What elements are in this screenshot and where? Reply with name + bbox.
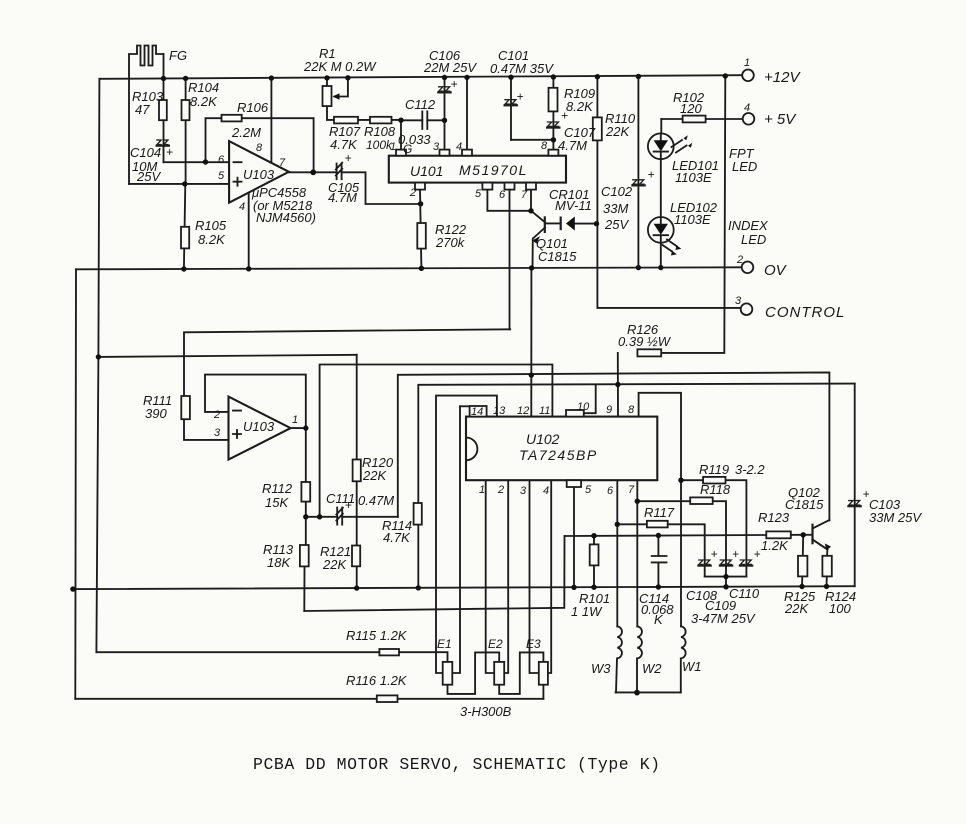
junction C114 top at R123 line <box>656 533 661 538</box>
junction Q101 emitter at 0V rail <box>529 265 534 270</box>
wire R109 / C107 / U101 pin8 column <box>552 78 554 156</box>
junction U103a pin4 at 0V rail <box>246 266 251 271</box>
resistor R115 <box>379 649 399 655</box>
junction W2 at star point <box>634 690 640 696</box>
svg-text:CONTROL: CONTROL <box>765 304 845 321</box>
svg-text:R123: R123 <box>758 510 790 525</box>
terminal 4 (+5V) <box>743 113 755 125</box>
junction C114 at bottom rail <box>656 584 661 589</box>
wire R119 line <box>681 480 746 576</box>
wire U103a output to C105 <box>289 171 337 173</box>
wire R120 line from left +12V drop <box>98 355 356 357</box>
LED LED101 <box>648 133 692 159</box>
junction R123 / R125 / Q102 base <box>801 532 806 537</box>
wire U102 pin4 drop to E3 right <box>548 480 551 673</box>
wire R113 column below C111 node <box>304 517 306 611</box>
svg-text:7: 7 <box>628 484 635 496</box>
wire pin11 line (C111 node up and over to U102 pin 11) <box>320 365 553 517</box>
svg-text:+: + <box>732 547 739 561</box>
svg-text:+: + <box>754 547 761 561</box>
junction R121 at bottom rail <box>354 585 359 590</box>
wire R105 column (to 0V rail) <box>184 184 185 269</box>
wire C114 column <box>657 536 659 588</box>
wire C112 right <box>427 119 444 121</box>
svg-text:33M 25V: 33M 25V <box>869 510 922 525</box>
svg-text:R108: R108 <box>364 124 396 139</box>
wire Q102 base <box>803 534 812 536</box>
wire U103b output down through R112 to C111 node <box>305 428 307 517</box>
svg-text:W3: W3 <box>591 661 611 676</box>
capacitor C103 <box>847 487 869 506</box>
wire R1 top <box>326 80 328 86</box>
svg-text:2: 2 <box>213 409 220 421</box>
svg-text:2: 2 <box>409 187 416 199</box>
wire U103a pin4 to 0V rail <box>248 193 250 269</box>
svg-text:E2: E2 <box>488 637 503 651</box>
pin stub U101 pin3 <box>440 150 450 156</box>
svg-text:+12V: +12V <box>764 69 801 86</box>
svg-text:8: 8 <box>541 140 548 152</box>
wire U102 pin3 drop to E3 left <box>530 480 539 673</box>
diode CR101 <box>561 217 575 231</box>
wire U102 pin5 stub drop to bottom rail <box>573 487 575 589</box>
IC U102 <box>466 417 657 481</box>
wire node pin6 line (C104 bottom to op-amp U103 pin6) <box>164 161 230 163</box>
svg-text:E1: E1 <box>437 637 452 651</box>
resistor R109 <box>549 88 558 112</box>
resistor R120 <box>353 460 361 482</box>
svg-text:25V: 25V <box>136 169 161 184</box>
FG sensor comb symbol <box>129 46 164 184</box>
resistor R107 <box>334 117 358 124</box>
wire U101 pin4 to rail <box>466 78 468 149</box>
svg-text:3-H300B: 3-H300B <box>460 704 512 719</box>
resistor R112 <box>301 482 310 502</box>
capacitor C106 <box>437 77 457 92</box>
resistor R122 <box>417 223 426 249</box>
svg-text:0.47M: 0.47M <box>358 493 394 508</box>
resistor R114 <box>414 503 422 525</box>
svg-text:18K: 18K <box>267 555 291 570</box>
wire R1 bottom / R107 R108 line to U101 pin1 node <box>327 106 401 120</box>
capacitor C104 <box>156 140 174 159</box>
wire Q101 collector to CR101 <box>545 222 561 224</box>
pin stub U101 pin4 <box>462 150 472 156</box>
junction U101 pin4 at +12V rail <box>464 75 469 80</box>
svg-text:U101: U101 <box>410 163 443 179</box>
svg-text:120: 120 <box>680 101 702 116</box>
svg-text:+: + <box>345 151 352 165</box>
svg-text:NJM4560): NJM4560) <box>256 210 316 225</box>
transistor Q102 <box>813 524 832 551</box>
svg-text:PCBA DD MOTOR SERVO, SCHEMATIC: PCBA DD MOTOR SERVO, SCHEMATIC (Type K) <box>253 755 661 774</box>
wire U102 pin12 vertical from 0V rail <box>530 268 532 416</box>
svg-text:1: 1 <box>479 484 485 496</box>
svg-text:U103: U103 <box>243 167 275 182</box>
winding W3 coil <box>616 626 622 692</box>
wire U101 pin6 line to R111 to U103b pin3 <box>184 329 510 440</box>
svg-text:14: 14 <box>471 406 483 418</box>
svg-text:6: 6 <box>607 485 614 497</box>
junction R109 at +12V rail <box>551 74 556 79</box>
junction U102 pin5 drop at bottom rail <box>571 585 576 590</box>
svg-text:10: 10 <box>577 401 590 413</box>
resistor R126 <box>637 349 661 356</box>
junction R122 at 0V rail <box>419 266 424 271</box>
svg-text:G: G <box>403 142 412 156</box>
wire U103b output <box>291 427 306 429</box>
wire U101 pin7 <box>530 190 532 211</box>
svg-text:7: 7 <box>521 189 528 201</box>
svg-text:W2: W2 <box>642 661 662 676</box>
svg-text:5: 5 <box>218 170 225 182</box>
svg-text:1: 1 <box>390 141 396 153</box>
svg-text:8.2K: 8.2K <box>198 232 226 247</box>
wire R118 line <box>637 501 726 587</box>
svg-text:2: 2 <box>497 484 504 496</box>
svg-text:1103E: 1103E <box>674 212 711 227</box>
wire C106 column / U101 pin3 <box>444 78 446 156</box>
svg-text:E3: E3 <box>526 637 541 651</box>
wire U102 pin13 loop to E1 left <box>436 396 497 673</box>
wire U102 pin6 / W3 column <box>616 480 618 626</box>
wire 0V rail <box>76 267 742 269</box>
wire +12V top rail <box>99 75 741 79</box>
wire FG right / R103 / C104 column <box>163 54 165 162</box>
wire C108 C109 C110 bottom bracket <box>705 576 747 578</box>
junction R117 at W3 column <box>615 522 620 527</box>
svg-text:390: 390 <box>145 406 167 421</box>
capacitor C101 <box>504 90 524 106</box>
wire E3 bottom to R116 line <box>542 685 544 699</box>
svg-text:4: 4 <box>744 102 750 114</box>
wire Q102 collector riser handled by bus1 <box>813 520 830 529</box>
junction R106/pin6 line <box>203 159 208 164</box>
pin stub U101 pin5 <box>482 183 492 190</box>
svg-text:C104: C104 <box>130 145 161 160</box>
wire U101 pin5 to Q101 base node <box>487 190 531 211</box>
wire bottom rail <box>73 586 855 589</box>
svg-text:15K: 15K <box>265 495 289 510</box>
svg-text:3-2.2: 3-2.2 <box>735 462 765 477</box>
junction R104 at +12V rail <box>183 76 188 81</box>
junction C102 at 0V rail <box>636 265 641 270</box>
resistor R106 <box>222 115 242 122</box>
junction U103a output / R106 / C105 <box>310 169 316 175</box>
svg-text:8: 8 <box>628 404 635 416</box>
junction cap bracket at bottom rail <box>723 584 728 589</box>
wire C102 column <box>637 76 639 268</box>
junction U101 pin5/pin7 / Q101 base <box>528 208 533 213</box>
svg-text:TA7245BP: TA7245BP <box>519 447 598 463</box>
wire pin14 loop drop to E1 right <box>452 406 460 673</box>
svg-text:100k: 100k <box>366 138 393 152</box>
wire U103a pin8 to +12V rail <box>270 78 272 163</box>
resistor R104 <box>182 100 190 120</box>
hall element E3 <box>539 662 548 685</box>
terminal 3 (CONTROL) <box>741 303 753 315</box>
svg-text:13: 13 <box>493 405 506 417</box>
capacitor C109 <box>719 547 739 566</box>
svg-text:+: + <box>166 145 173 159</box>
svg-text:R104: R104 <box>188 80 219 95</box>
wire U102 pin2 drop to E2 right <box>504 480 508 673</box>
svg-text:+: + <box>648 168 655 182</box>
svg-text:3: 3 <box>520 485 527 497</box>
svg-text:11: 11 <box>539 405 550 417</box>
svg-text:C112: C112 <box>405 97 436 112</box>
svg-text:5: 5 <box>475 188 482 200</box>
wire U101 pin2 to R122 to 0V rail <box>420 190 421 269</box>
svg-text:R116 1.2K: R116 1.2K <box>346 673 408 688</box>
resistor R119 <box>703 477 725 484</box>
svg-text:R112: R112 <box>262 481 293 496</box>
junction U102 pin9 at bus2 <box>615 382 620 387</box>
svg-text:1 1W: 1 1W <box>571 604 603 619</box>
svg-text:W1: W1 <box>682 659 702 674</box>
wire R125 column <box>802 535 803 587</box>
svg-text:25V: 25V <box>604 217 629 232</box>
svg-text:12: 12 <box>517 405 529 417</box>
wire U102 pin7 / W2 column <box>636 480 638 626</box>
junction FG/R103 at +12V rail <box>161 76 166 81</box>
svg-text:C102: C102 <box>601 184 633 199</box>
pin stub U101 pin7 <box>526 183 536 190</box>
svg-text:+: + <box>451 77 458 91</box>
resistor R105 <box>181 227 189 249</box>
svg-text:FG: FG <box>169 48 187 63</box>
svg-text:C1815: C1815 <box>785 497 824 512</box>
wire R102 line to +5V terminal <box>661 118 742 120</box>
wire C105 to U101 pin2 node <box>342 172 421 204</box>
svg-text:3-47M 25V: 3-47M 25V <box>691 611 756 626</box>
wire R1 wiper to rail <box>335 78 348 96</box>
junction C102 at +12V rail <box>636 74 641 79</box>
svg-text:8: 8 <box>256 142 263 154</box>
svg-text:7: 7 <box>279 157 286 169</box>
svg-text:1: 1 <box>292 414 298 426</box>
svg-text:R119: R119 <box>699 462 729 477</box>
pin stub U102 pin10 box <box>566 410 584 417</box>
wire U101 pin1 <box>400 120 402 149</box>
wire Q102 emitter to R124 <box>813 540 828 587</box>
wire R116 line <box>75 698 543 700</box>
terminal 2 (0V) <box>742 262 754 274</box>
wire bus1 (U102 pin12 bus) <box>398 372 830 520</box>
wire W1 coil and bottom <box>681 626 686 692</box>
wire R120 / R121 column <box>356 355 358 589</box>
junction U103b output <box>303 425 308 430</box>
junction pin11 riser / C111 line <box>317 514 322 519</box>
svg-text:4.7K: 4.7K <box>383 530 411 545</box>
wire U101 pin6 down to U103b line <box>509 190 511 330</box>
svg-text:22K: 22K <box>784 601 809 616</box>
svg-text:9: 9 <box>606 404 612 416</box>
svg-text:K: K <box>654 612 664 627</box>
terminal 1 (+12V) <box>742 70 754 82</box>
wire winding star point <box>616 691 681 693</box>
junction C106 at +12V rail <box>442 75 447 80</box>
svg-text:22K: 22K <box>362 468 387 483</box>
junction R114 at bottom rail <box>416 585 421 590</box>
capacitor C105 <box>336 151 352 179</box>
junction C101 at +12V rail <box>508 75 513 80</box>
pin stub U101 pin1 <box>396 150 406 156</box>
resistor R117 <box>647 521 668 528</box>
resistor R113 <box>300 545 309 566</box>
capacitor C102 <box>631 168 654 186</box>
resistor R116 <box>377 695 398 702</box>
svg-text:M51970L: M51970L <box>459 162 528 178</box>
svg-text:LED: LED <box>741 232 766 247</box>
wire R110 column down to CONTROL terminal <box>597 76 740 308</box>
svg-text:1.2K: 1.2K <box>761 538 789 553</box>
wire U102 pin8 jog to W1 column <box>639 393 681 627</box>
junction CR101 anode / R110 column <box>594 221 599 226</box>
wire bus2 (R114 to C103 bus) <box>418 384 854 588</box>
svg-text:3: 3 <box>214 427 221 439</box>
svg-text:OV: OV <box>764 262 788 279</box>
svg-text:100: 100 <box>829 601 851 616</box>
svg-text:6: 6 <box>218 154 225 166</box>
pin stub U102 pin5 box <box>567 480 581 487</box>
wire R113 line to R123 line riser <box>304 536 564 611</box>
pin stub U101 pin8 <box>548 150 558 156</box>
svg-text:270k: 270k <box>435 235 466 250</box>
svg-text:INDEX: INDEX <box>728 218 769 233</box>
svg-text:1103E: 1103E <box>675 170 712 185</box>
op-amp U103 (a) <box>229 141 289 203</box>
resistor R121 <box>352 546 360 567</box>
svg-text:22M 25V: 22M 25V <box>423 60 477 75</box>
svg-text:U102: U102 <box>526 431 560 447</box>
resistor R108 <box>370 117 392 124</box>
pin stub U101 pin6 <box>505 183 515 190</box>
svg-text:0.47M 35V: 0.47M 35V <box>490 61 554 76</box>
wire +12V drop right to R126 line <box>637 76 725 353</box>
svg-text:47: 47 <box>135 102 150 117</box>
junction U103a pin8 at +12V rail <box>269 75 274 80</box>
svg-text:2: 2 <box>736 254 743 266</box>
svg-text:2.2M: 2.2M <box>231 125 261 140</box>
svg-text:U103: U103 <box>243 419 275 434</box>
capacitor C107 <box>546 109 568 128</box>
junction R108 / C112 / U101 pin1 <box>398 118 403 123</box>
svg-text:4.7M: 4.7M <box>328 190 357 205</box>
junction U102 pin12 at bus1 <box>529 372 534 377</box>
svg-text:1: 1 <box>744 57 750 69</box>
wire R104 column <box>185 78 187 184</box>
capacitor C108 <box>697 547 717 566</box>
svg-text:4.7M: 4.7M <box>558 138 587 153</box>
wire C111 line left <box>306 516 337 518</box>
wire R106 feedback loop <box>206 118 314 172</box>
hall element E1 <box>443 662 453 685</box>
junction left drop / R120 line <box>96 354 101 359</box>
junction R125 at bottom rail <box>799 584 804 589</box>
wire C101 column <box>510 78 512 140</box>
junction R101 at bottom rail <box>591 585 596 590</box>
resistor R118 <box>690 497 713 504</box>
junction R1 top at +12V rail <box>324 75 329 80</box>
transistor Q101 <box>531 211 545 268</box>
resistor R125 <box>798 556 807 577</box>
svg-text:LED: LED <box>732 159 757 174</box>
wire C101 bottom to pin8 column <box>511 139 553 141</box>
svg-text:4: 4 <box>543 485 549 497</box>
svg-text:8.2K: 8.2K <box>566 99 594 114</box>
resistor R103 <box>159 100 167 120</box>
resistor R123 <box>766 531 791 538</box>
svg-text:5: 5 <box>585 484 592 496</box>
svg-text:6: 6 <box>499 189 506 201</box>
resistor R110 <box>593 117 602 140</box>
svg-text:C111: C111 <box>326 491 355 506</box>
svg-text:22K M 0.2W: 22K M 0.2W <box>303 59 377 74</box>
wire LED column <box>660 119 663 268</box>
wire U102 pin10 jog from bus2 <box>584 385 596 414</box>
junction R105 at 0V rail <box>181 266 186 271</box>
winding W2 coil <box>637 626 642 692</box>
wire R123 line <box>565 535 804 536</box>
junction C105 line / U101 pin2 / R122 <box>418 201 423 206</box>
wire node pin5 line (FG bottom to op-amp U103 pin5) <box>129 183 229 185</box>
capacitor C114 <box>652 556 667 562</box>
junction R119 at W1 column <box>678 478 683 483</box>
pin stub U102 pin14 box <box>470 406 487 417</box>
junction R101 top at R123 line <box>591 533 596 538</box>
svg-text:R117: R117 <box>644 505 675 520</box>
capacitor C110 <box>739 547 761 566</box>
wire CR101 anode to R110 column <box>575 223 596 225</box>
wire U102 pin9 / R126 left drop <box>617 353 619 417</box>
junction R112 / C111 line <box>303 514 308 519</box>
junction R104/R105/pin5 line <box>182 181 187 186</box>
LED LED102 <box>648 217 681 256</box>
junction C108-C110 bracket drop <box>723 574 728 579</box>
op-amp U103 (b) <box>229 397 291 460</box>
hall element E2 <box>494 662 504 685</box>
svg-text:+: + <box>517 90 524 104</box>
svg-text:4: 4 <box>239 201 245 213</box>
junction LED102 at 0V rail <box>658 265 663 270</box>
junction bottom rail left end <box>70 586 75 591</box>
junction R118 at W2 column <box>635 499 640 504</box>
svg-text:C1815: C1815 <box>538 249 577 264</box>
wire U102 pin1 drop to E2 left <box>486 480 495 673</box>
capacitor C111 <box>336 498 351 525</box>
svg-text:MV-11: MV-11 <box>555 198 592 213</box>
junction C112 / C106 column <box>442 118 447 123</box>
svg-text:33M: 33M <box>603 201 628 216</box>
resistor R124 <box>822 556 831 577</box>
wire U103b pin2 feedback loop <box>205 375 306 428</box>
wire C112 left <box>401 119 422 121</box>
svg-text:8.2K: 8.2K <box>190 94 218 109</box>
svg-text:R118: R118 <box>700 482 731 497</box>
svg-text:22K: 22K <box>322 557 347 572</box>
svg-text:3: 3 <box>433 141 440 153</box>
junction R1 wiper at +12V rail <box>345 75 350 80</box>
svg-text:3: 3 <box>735 295 742 307</box>
junction C101 line / pin8 column <box>551 137 556 142</box>
svg-text:4.7K: 4.7K <box>330 137 358 152</box>
wire R117 line <box>617 524 704 576</box>
wire left +12V drop (to R115 line) <box>96 79 99 652</box>
svg-text:4: 4 <box>456 141 462 153</box>
wire C103 column <box>854 384 856 587</box>
wire U102 pin14 loop <box>460 405 470 407</box>
